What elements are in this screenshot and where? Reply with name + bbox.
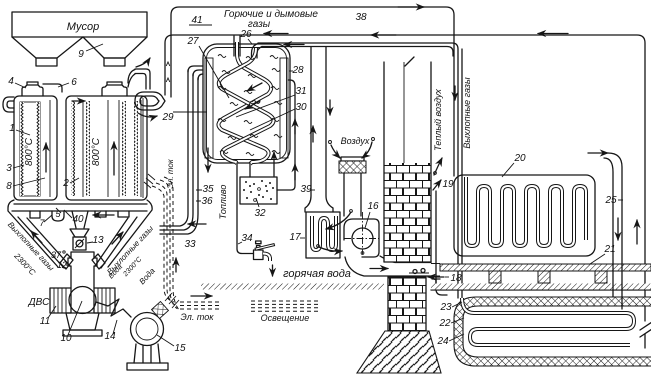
- svg-text:Воздух: Воздух: [341, 136, 370, 146]
- svg-text:10: 10: [60, 333, 72, 344]
- svg-text:Эл. ток: Эл. ток: [181, 312, 215, 322]
- svg-text:39: 39: [300, 184, 312, 195]
- svg-text:13: 13: [92, 235, 104, 246]
- svg-text:Теплый воздух: Теплый воздух: [433, 89, 443, 151]
- svg-text:4: 4: [8, 76, 14, 87]
- svg-text:19: 19: [442, 179, 454, 190]
- svg-text:8: 8: [6, 181, 12, 192]
- svg-text:15: 15: [174, 343, 186, 354]
- svg-text:28: 28: [291, 65, 304, 76]
- svg-text:22: 22: [438, 318, 451, 329]
- svg-text:34: 34: [241, 233, 253, 244]
- svg-text:24: 24: [436, 336, 449, 347]
- svg-text:800°С: 800°С: [91, 137, 102, 166]
- svg-text:21: 21: [603, 244, 615, 255]
- svg-text:800°С: 800°С: [24, 137, 35, 166]
- svg-text:12: 12: [57, 260, 67, 270]
- svg-text:37: 37: [51, 250, 62, 260]
- svg-text:30: 30: [295, 102, 307, 113]
- svg-text:26: 26: [239, 29, 252, 40]
- svg-text:горячая вода: горячая вода: [283, 268, 351, 280]
- svg-text:41: 41: [191, 15, 202, 26]
- svg-text:Мусор: Мусор: [67, 21, 100, 33]
- svg-text:27: 27: [186, 36, 199, 47]
- svg-text:9: 9: [78, 49, 84, 60]
- svg-text:38: 38: [355, 12, 367, 23]
- svg-text:36: 36: [201, 196, 213, 207]
- svg-text:14: 14: [104, 331, 116, 342]
- svg-text:16: 16: [367, 201, 379, 212]
- svg-text:33: 33: [184, 239, 196, 250]
- svg-text:Топливо: Топливо: [218, 185, 228, 220]
- svg-text:Выхлопные газы: Выхлопные газы: [462, 77, 472, 149]
- svg-text:6: 6: [71, 77, 77, 88]
- svg-text:17: 17: [289, 232, 301, 243]
- svg-text:18: 18: [450, 273, 462, 284]
- svg-text:Освещение: Освещение: [261, 313, 310, 323]
- svg-text:1: 1: [9, 123, 15, 134]
- svg-text:31: 31: [295, 86, 306, 97]
- svg-text:Горючие и дымовые: Горючие и дымовые: [224, 9, 318, 20]
- svg-text:35: 35: [202, 184, 214, 195]
- svg-text:2: 2: [62, 178, 69, 189]
- svg-text:ДВС: ДВС: [28, 297, 50, 308]
- svg-text:20: 20: [513, 153, 526, 164]
- svg-text:32: 32: [254, 208, 266, 219]
- svg-text:29: 29: [161, 112, 174, 123]
- svg-text:25: 25: [604, 195, 617, 206]
- svg-text:3: 3: [6, 163, 12, 174]
- svg-text:23: 23: [439, 302, 452, 313]
- svg-text:Эл. ток: Эл. ток: [166, 158, 175, 189]
